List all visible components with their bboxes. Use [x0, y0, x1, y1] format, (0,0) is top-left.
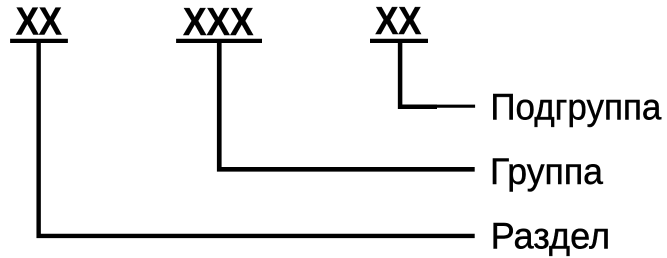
svg-text:Группа: Группа [490, 151, 603, 192]
underline under subgroup XX [370, 39, 428, 43]
underline under section XX [10, 39, 68, 43]
wire: leader line from group XXX down and right to label Группа [219, 41, 474, 169]
svg-text:Раздел: Раздел [491, 215, 610, 256]
svg-text:XX: XX [16, 0, 62, 43]
wire: leader line segment to label Подгруппа [430, 105, 475, 108]
svg-text:XX: XX [375, 0, 421, 43]
underline under group XXX [176, 39, 262, 43]
wire: leader line from section XX down and right to label Раздел [39, 41, 475, 236]
svg-text:XXX: XXX [183, 1, 254, 44]
svg-text:Подгруппа: Подгруппа [490, 87, 661, 128]
wire: leader elbow from subgroup XX down to label row [400, 41, 437, 107]
